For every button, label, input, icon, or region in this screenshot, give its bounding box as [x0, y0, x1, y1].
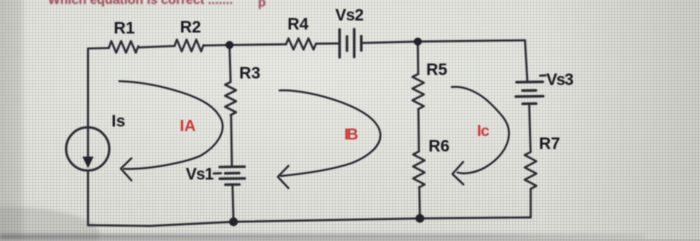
svg-text:R7: R7 [539, 135, 560, 153]
mesh loop IA arc [119, 81, 222, 169]
label leader dash Vs1 [214, 172, 221, 175]
resistor R1 [109, 41, 139, 53]
wire Vs1 to bottom rail [233, 185, 234, 222]
junction node top middle [226, 41, 234, 49]
svg-text:R4: R4 [288, 15, 310, 33]
resistor R2 [175, 40, 204, 52]
resistor R3 [225, 82, 236, 115]
svg-text:R3: R3 [239, 65, 260, 83]
current source arrowhead [82, 157, 93, 169]
svg-text:R2: R2 [180, 19, 201, 37]
svg-text:Which equation is correct ....: Which equation is correct ....... [48, 0, 233, 7]
svg-text:IB: IB [344, 126, 358, 143]
svg-text:Ic: Ic [477, 123, 490, 140]
svg-text:Is: Is [112, 113, 126, 131]
wire Vs3 to R7 [529, 104, 530, 152]
junction node bottom middle [229, 217, 238, 226]
wire bottom-left corner up to current source [87, 171, 89, 226]
bottom dark photo edge [0, 234, 645, 240]
wire R4 to Vs2 [316, 42, 340, 44]
label leader dash Vs3 [540, 74, 546, 76]
battery Vs1 [220, 167, 245, 185]
resistor R6 [413, 151, 425, 187]
battery Vs3 [516, 82, 543, 104]
junction node bottom right [416, 214, 425, 223]
mesh loop IB arrowhead [278, 166, 289, 188]
current source arrow shaft [87, 131, 89, 158]
wire bottom rail [88, 217, 531, 226]
svg-text:IA: IA [180, 118, 196, 135]
wire top rail to current source [87, 49, 89, 132]
current source Is circle [66, 127, 109, 170]
wire top rail left: A to R1 [88, 47, 109, 50]
wire R7 to bottom-right corner [530, 189, 532, 217]
svg-text:R5: R5 [426, 61, 447, 79]
mesh loop IA arrowhead [121, 158, 132, 180]
svg-text:R1: R1 [114, 19, 135, 37]
bottom-left corner vignette [0, 207, 100, 241]
mesh loop Ic arc [452, 87, 509, 174]
battery Vs2 [340, 29, 362, 57]
svg-text:Vs3: Vs3 [546, 71, 574, 89]
wire top junction down to R3 [230, 45, 231, 82]
cropped question text at top [48, 0, 266, 10]
wire between R1 and R2 [138, 46, 174, 47]
resistor R5 [412, 74, 424, 109]
wire right edge down to Vs3 [525, 40, 527, 82]
svg-text:p: p [258, 0, 266, 10]
wire Vs2 to top-right corner through junction [361, 40, 525, 43]
wire R2 to R4 through top junction [204, 44, 286, 45]
resistor R7 [525, 152, 537, 189]
junction node top right [414, 38, 422, 46]
svg-text:Vs1: Vs1 [186, 166, 214, 184]
resistor R4 [286, 38, 316, 49]
wire R5 to R6 [417, 109, 420, 151]
wire top junction down to R5 [417, 42, 420, 74]
svg-text:Vs2: Vs2 [335, 6, 364, 24]
mesh loop Ic arrowhead [452, 162, 463, 185]
wire R3 to Vs1 [230, 115, 233, 167]
wire R6 to bottom junction [418, 187, 421, 218]
mesh loop IB arc [279, 90, 380, 176]
svg-text:R6: R6 [429, 138, 450, 156]
